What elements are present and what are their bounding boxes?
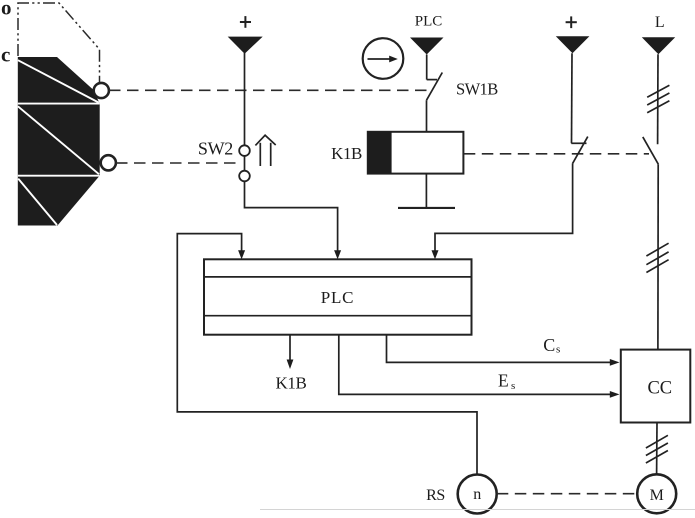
svg-text:n: n — [473, 486, 481, 503]
svg-text:SW2: SW2 — [198, 139, 233, 159]
contact SW1B (normally closed) — [427, 73, 443, 101]
wire CC to motor M — [656, 423, 658, 475]
feedback wire n to PLC input 1 — [177, 234, 477, 475]
svg-text:L: L — [655, 14, 665, 31]
svg-text:K1B: K1B — [331, 144, 362, 163]
svg-text:SW1B: SW1B — [456, 80, 498, 99]
contactor contact (L line) — [643, 137, 659, 164]
label SW1B — [456, 80, 498, 99]
wire +right to contact K1B-a — [571, 53, 574, 143]
actuation arrow (SW2, double up-arrow) — [255, 135, 275, 166]
PLC output Cs to CC — [387, 335, 620, 366]
svg-text:E: E — [498, 370, 509, 390]
svg-text:K1B: K1B — [276, 374, 307, 393]
mechanical link n to M (dashed) — [497, 493, 637, 495]
terminal PLC (top) — [410, 14, 444, 55]
svg-text:PLC: PLC — [321, 288, 355, 307]
wire coil K1B to ground — [425, 174, 427, 208]
three-phase slashes (middle) — [646, 243, 668, 272]
wire contactor to CC — [657, 164, 659, 349]
relay coil K1B — [368, 132, 464, 174]
svg-text:o: o — [1, 0, 12, 20]
mechanical link roller1 to SW1B (dashed) — [109, 89, 428, 91]
ground (K1B coil) — [398, 207, 455, 209]
svg-text:M: M — [650, 487, 664, 504]
switch SW2 — [239, 145, 250, 181]
label K1B (output) — [276, 374, 307, 393]
line terminal L — [642, 14, 675, 54]
svg-text:RS: RS — [426, 487, 445, 504]
mechanical link roller2 to SW2 (dashed) — [116, 162, 241, 164]
scan artifact line (bottom) — [260, 509, 695, 511]
svg-text:s: s — [556, 343, 560, 355]
wire SW1B to K1B coil — [426, 100, 428, 132]
node o (door open position label) — [1, 0, 12, 20]
label K1B (coil) — [331, 144, 362, 163]
phantom chain outline (cam open position) — [18, 3, 100, 83]
svg-text:s: s — [511, 380, 515, 392]
wire PLC terminal to SW1B — [426, 55, 428, 80]
svg-text:PLC: PLC — [415, 14, 443, 30]
tachogenerator n — [458, 475, 497, 514]
svg-text:CC: CC — [647, 379, 672, 399]
mechanical link K1B coil to contacts (dashed) — [464, 153, 649, 155]
node c (door closed position label) — [1, 43, 10, 67]
controller CC box — [621, 350, 691, 423]
contact K1B-a (normally closed) — [571, 137, 588, 164]
roller contact 1 — [94, 83, 109, 98]
roller contact 2 — [101, 155, 116, 170]
three-phase slashes (top) — [647, 85, 669, 113]
wire +left to SW2 — [244, 53, 246, 145]
cam plate (black door cam) — [18, 57, 100, 226]
svg-text:c: c — [1, 43, 10, 67]
PLC output Es to CC — [339, 335, 620, 398]
wire L to contactor contact — [657, 54, 659, 144]
three-phase slashes (bottom) — [646, 435, 668, 463]
PLC output arrow to K1B — [287, 335, 294, 369]
wire contact K1B-a to PLC input 3 — [432, 163, 573, 259]
meter / flow indicator — [363, 38, 404, 79]
supply terminal + (right) — [556, 16, 590, 53]
supply terminal + (left) — [228, 16, 263, 54]
wire SW2 to PLC input 2 — [245, 181, 342, 259]
svg-text:C: C — [543, 335, 555, 355]
motor M — [637, 474, 676, 513]
PLC controller box — [204, 259, 472, 334]
label RS — [426, 487, 445, 504]
label Cs — [543, 335, 560, 356]
label SW2 — [198, 139, 233, 159]
label Es — [498, 370, 515, 391]
